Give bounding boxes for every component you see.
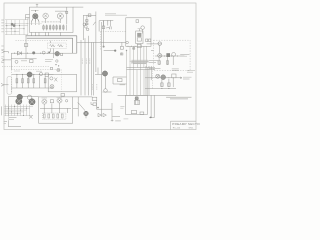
box D bottom middle	[39, 97, 73, 123]
node on vertical	[103, 46, 105, 48]
dark comp	[166, 53, 170, 57]
part labels under tubes	[42, 21, 62, 23]
left arrows lower	[1, 83, 9, 86]
cap C2	[88, 14, 91, 17]
lower mid-left wire	[11, 53, 36, 69]
box C dashed right	[154, 40, 191, 70]
coupling cap above box F	[50, 68, 52, 70]
caps near x=86	[86, 15, 88, 25]
ladder bottom left	[5, 104, 34, 120]
diagonal wire to V11	[78, 102, 85, 111]
dark node	[32, 51, 35, 54]
mid dark feed lines	[26, 36, 77, 54]
tube V7	[16, 98, 22, 104]
wire top feed	[73, 6, 83, 8]
label top middle	[105, 14, 127, 15]
drops with resistors	[17, 74, 45, 88]
vertical bus x=101.6	[101, 22, 103, 117]
box A tube section	[30, 7, 74, 32]
tube V2	[43, 13, 48, 18]
small stage circle above box F	[57, 68, 60, 71]
comp right	[172, 74, 176, 78]
blobs x83-86	[83, 23, 85, 25]
box E bottom right	[126, 95, 148, 114]
terminal ladder top-left	[5, 20, 28, 35]
transistor Q1	[158, 53, 162, 57]
left edge arrows mid	[2, 50, 12, 61]
tube V13	[50, 85, 54, 89]
heater wire cluster	[99, 21, 113, 32]
bus at far right mid	[146, 66, 149, 95]
stub box B to C	[151, 50, 154, 52]
comp between	[50, 100, 53, 103]
transformer in box E	[136, 97, 139, 105]
wires right of box E	[149, 95, 154, 117]
note text bottom right	[166, 97, 191, 99]
dashed section line mid	[2, 65, 50, 67]
junction dots on bus top	[128, 46, 136, 47]
svg-text:SH-1: SH-1	[189, 127, 195, 129]
note text above bundle	[130, 61, 150, 63]
right of box D	[77, 97, 79, 117]
dotted pair in box B	[136, 31, 143, 44]
transistor Q3	[156, 74, 160, 78]
inner divider box A	[66, 7, 68, 24]
antenna stub	[36, 4, 38, 7]
right bus bundle	[127, 46, 148, 95]
diode cluster bottom middle	[97, 103, 113, 120]
node at 127,42.5	[126, 41, 129, 44]
small cap below box F	[61, 94, 65, 97]
wire below box A	[32, 32, 61, 35]
border frame	[4, 3, 196, 130]
svg-text:PREAMP SECTION: PREAMP SECTION	[172, 122, 200, 126]
dashed section boundary mid	[101, 31, 126, 33]
transistor Q4 dark	[161, 75, 166, 80]
junction cluster	[11, 23, 14, 26]
label left of box E	[120, 107, 124, 109]
bottom stub wire	[8, 121, 21, 127]
cap C1 on top edge	[66, 11, 68, 13]
light circle node	[42, 51, 45, 54]
wire in box C	[155, 55, 185, 57]
wires from box A to left terminals	[26, 15, 30, 20]
jack row	[9, 96, 39, 116]
shield can	[7, 77, 12, 95]
tube V9	[42, 99, 47, 104]
box F driver section	[48, 74, 76, 92]
resistor pair dashed box	[47, 43, 66, 49]
mid left wire row	[11, 52, 77, 54]
box B top right	[126, 18, 151, 47]
labels under ladder	[9, 118, 17, 120]
terminal labels left	[1, 20, 4, 32]
bottom-left wire row	[12, 73, 54, 75]
drops	[162, 78, 173, 87]
tube V8	[29, 99, 35, 105]
labels above lamp wire	[14, 70, 42, 72]
switch diagonal	[93, 22, 96, 25]
svg-text:RC-114: RC-114	[173, 127, 181, 129]
right lower section	[149, 68, 195, 72]
dashed section edge	[152, 71, 154, 89]
left section edge wire	[25, 36, 27, 59]
vertical bus group mid page	[81, 36, 93, 96]
tube V10	[57, 98, 62, 103]
rotated label	[1, 106, 3, 115]
transistor Q2	[172, 53, 176, 57]
tube V1 legs	[32, 22, 40, 26]
bottom-left dashed enclosure	[11, 68, 60, 70]
tube V1	[32, 10, 40, 22]
label in box C	[180, 55, 189, 57]
resistor row dashed box	[43, 113, 66, 119]
wire to bundle	[104, 49, 115, 51]
comp on box B top	[136, 20, 139, 23]
resistor row in box A	[43, 25, 67, 31]
wire across	[145, 77, 182, 79]
tube V6	[27, 72, 32, 77]
wire row in box D	[40, 107, 78, 109]
V4 labels	[45, 59, 53, 61]
tube V5	[102, 71, 107, 76]
pilot lamp dark	[17, 94, 23, 100]
junction dots lamp row	[16, 74, 45, 75]
drops below wire	[159, 56, 173, 65]
labels above tubes	[42, 97, 63, 100]
comp in box B	[141, 26, 145, 30]
title block	[171, 121, 197, 129]
dashed line inside box A	[27, 23, 43, 25]
junction dots mid row	[14, 53, 48, 54]
right-mid dense cluster	[137, 44, 146, 68]
label above V3	[55, 10, 66, 12]
corner label	[4, 122, 8, 124]
title text	[172, 122, 203, 129]
bus labels	[82, 59, 97, 91]
note text block mid right	[132, 60, 149, 63]
tube V3	[57, 13, 63, 19]
small tube node	[133, 47, 135, 49]
tube V11	[84, 111, 89, 116]
diode D1	[18, 51, 22, 55]
comps in box E	[131, 111, 136, 114]
tube V12	[50, 77, 53, 80]
top middle wires	[83, 12, 96, 73]
tube V4	[55, 51, 60, 56]
